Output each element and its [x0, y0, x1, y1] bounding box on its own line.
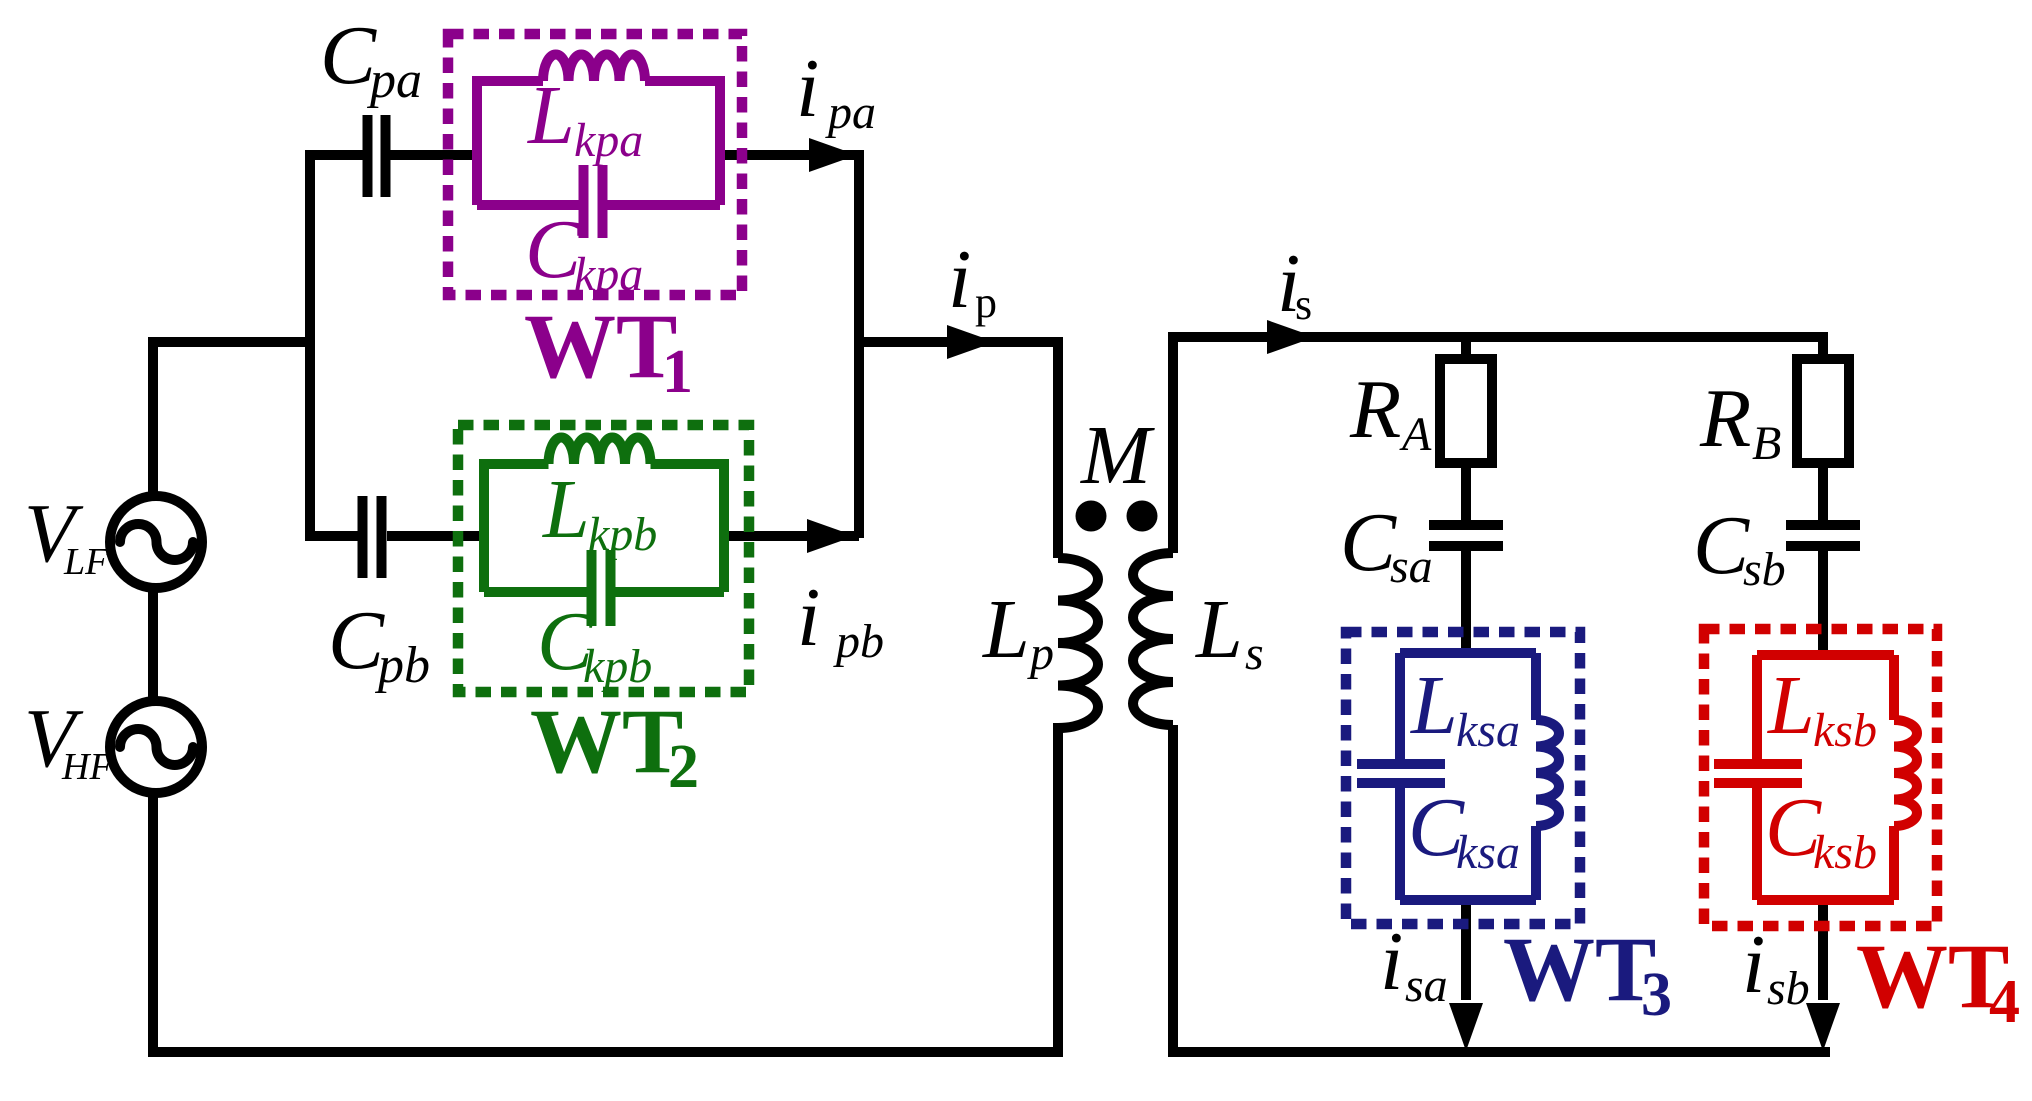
label Lkpb	[542, 463, 657, 561]
svg-text:pa: pa	[825, 86, 876, 139]
label RB	[1699, 372, 1781, 470]
svg-text:kpb: kpb	[583, 640, 652, 693]
svg-text:C: C	[328, 594, 385, 687]
svg-text:ksa: ksa	[1456, 826, 1520, 879]
svg-text:ksb: ksb	[1813, 704, 1877, 757]
svg-text:ksb: ksb	[1813, 826, 1877, 879]
label WT2	[530, 690, 699, 801]
capacitor Ckpa plates	[584, 165, 603, 238]
svg-text:WT: WT	[524, 295, 677, 397]
svg-text:pa: pa	[366, 52, 422, 109]
box WT2 dashed	[458, 425, 749, 692]
LC loop WT1	[477, 81, 720, 205]
wire branch-b from WT2 to node	[724, 531, 859, 541]
svg-text:L: L	[527, 69, 575, 162]
svg-text:C: C	[1693, 499, 1750, 592]
box WT3 dashed	[1346, 632, 1580, 924]
label isa	[1380, 915, 1448, 1012]
svg-text:4: 4	[1989, 968, 2020, 1036]
capacitor Ckpb plates	[592, 550, 611, 626]
svg-text:kpa: kpa	[574, 248, 643, 301]
capacitor Csb plates	[1786, 525, 1860, 546]
label WT3	[1503, 918, 1672, 1029]
svg-text:sa: sa	[1390, 540, 1433, 593]
label VHF	[24, 692, 113, 788]
label Lp	[982, 583, 1054, 680]
svg-text:pb: pb	[833, 615, 884, 668]
label Lksb	[1767, 659, 1877, 757]
svg-text:ksa: ksa	[1456, 704, 1520, 757]
svg-text:i: i	[796, 42, 819, 135]
wire stub source-top to junction	[148, 337, 310, 347]
wire RA stub from top bus	[1461, 337, 1471, 359]
label Lksa	[1410, 659, 1520, 757]
svg-text:WT: WT	[1856, 925, 2009, 1027]
wire branch-a from Cpa to WT1	[389, 150, 477, 160]
arrow ip	[947, 325, 995, 359]
wire secondary bottom bus	[1168, 1047, 1830, 1057]
LC loop WT3	[1400, 653, 1536, 900]
svg-text:M: M	[1080, 409, 1155, 502]
box WT1 dashed	[448, 34, 742, 295]
svg-text:C: C	[1340, 496, 1397, 589]
resistor RA	[1440, 359, 1492, 463]
wire Csb to WT4	[1818, 550, 1828, 658]
svg-text:L: L	[982, 583, 1030, 676]
source VHF	[110, 701, 202, 793]
label Ckpa	[525, 203, 643, 301]
label WT4	[1856, 925, 2020, 1036]
resistor RB	[1797, 359, 1849, 463]
svg-text:i: i	[948, 233, 971, 326]
dot primary polarity	[1076, 501, 1107, 532]
label ip	[948, 233, 997, 327]
svg-text:LF: LF	[63, 541, 109, 583]
svg-text:HF: HF	[61, 746, 113, 788]
LC loop WT4	[1757, 655, 1894, 900]
wire WT3 exit down	[1461, 900, 1471, 1000]
source VLF	[110, 496, 202, 588]
wire junction vertical between branch a and branch b	[305, 150, 315, 541]
label Ckpb	[537, 595, 652, 693]
wire left-source-branch: left vertical with bottom bus to primary coil	[153, 342, 1058, 1052]
svg-text:sb: sb	[1743, 543, 1786, 596]
svg-text:sb: sb	[1767, 962, 1810, 1015]
wire branch-b from junction to Cpb	[310, 531, 358, 541]
svg-text:R: R	[1699, 372, 1751, 465]
svg-text:3: 3	[1641, 961, 1672, 1029]
arrow ipb	[807, 519, 855, 553]
label Cpb	[328, 594, 430, 694]
wire secondary left vertical below coil	[1168, 725, 1178, 1052]
arrow is	[1267, 320, 1315, 354]
svg-text:C: C	[320, 9, 377, 102]
label Csa	[1340, 496, 1433, 593]
label Lkpa	[527, 69, 643, 167]
inductor Lp primary coil	[1058, 558, 1098, 728]
LC loop WT2	[484, 464, 724, 592]
dot secondary polarity	[1127, 501, 1158, 532]
svg-text:s: s	[1295, 280, 1312, 329]
arrow isb down	[1806, 1003, 1840, 1051]
wire Csa to WT3	[1461, 550, 1471, 658]
arrow ipa	[809, 138, 857, 172]
svg-text:p: p	[1027, 627, 1054, 680]
capacitor Cksb plates	[1714, 764, 1802, 783]
label RA	[1349, 363, 1432, 461]
svg-text:R: R	[1349, 363, 1401, 456]
label Ls	[1195, 583, 1264, 680]
svg-text:i: i	[797, 571, 820, 664]
svg-text:L: L	[1410, 659, 1458, 752]
wire secondary left vertical above coil, top bus and RB corner	[1173, 337, 1823, 553]
label ipb	[797, 571, 884, 668]
svg-text:B: B	[1752, 417, 1781, 470]
inductor Lksa coil	[1536, 720, 1559, 826]
label Cksa	[1408, 781, 1520, 879]
box WT4 dashed	[1704, 629, 1937, 926]
label Csb	[1693, 499, 1786, 596]
svg-text:s: s	[1245, 627, 1264, 680]
svg-text:kpb: kpb	[588, 508, 657, 561]
wire branch-a from junction to Cpa	[310, 150, 363, 160]
arrow isa down	[1449, 1003, 1483, 1051]
label WT1	[524, 295, 693, 406]
wire branch-a from WT1 to node, with corner down	[720, 155, 859, 538]
svg-text:sa: sa	[1405, 959, 1448, 1012]
wire branch-b from Cpb to WT2	[387, 531, 484, 541]
svg-text:i: i	[1380, 915, 1403, 1008]
wire RA to Csa	[1461, 463, 1471, 521]
svg-text:kpa: kpa	[574, 114, 643, 167]
svg-text:1: 1	[662, 338, 693, 406]
label ipa	[796, 42, 876, 139]
label is	[1277, 237, 1312, 330]
capacitor Cpa plates	[368, 115, 386, 197]
capacitor Cpb plates	[363, 496, 382, 578]
svg-text:p: p	[975, 278, 997, 327]
svg-text:i: i	[1742, 918, 1765, 1011]
svg-text:L: L	[542, 463, 590, 556]
label Cksb	[1765, 781, 1877, 879]
svg-text:WT: WT	[1503, 918, 1656, 1020]
svg-text:pb: pb	[374, 637, 430, 694]
svg-text:L: L	[1195, 583, 1243, 676]
svg-text:L: L	[1767, 659, 1815, 752]
wire ip from node to transformer primary	[859, 342, 1058, 558]
inductor Lksb coil	[1894, 720, 1917, 826]
inductor Lkpb coil	[549, 438, 651, 465]
label VLF	[24, 487, 109, 583]
capacitor Csa plates	[1429, 525, 1503, 546]
svg-text:WT: WT	[530, 690, 683, 792]
wire RB to Csb	[1818, 463, 1828, 521]
capacitor Cksa plates	[1357, 764, 1445, 783]
svg-text:A: A	[1399, 408, 1432, 461]
wire WT4 exit down	[1818, 900, 1828, 1000]
inductor Lkpa coil	[543, 55, 645, 81]
label Cpa	[320, 9, 422, 109]
svg-text:2: 2	[668, 733, 699, 801]
inductor Ls secondary coil	[1133, 553, 1173, 725]
label isb	[1742, 918, 1810, 1015]
